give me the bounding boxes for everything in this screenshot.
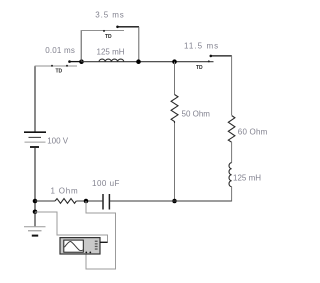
switch S2 lead (gray body line) (81, 30, 124, 32)
wire: bottom main left (35, 200, 55, 202)
resistor R2 60 Ohm zigzag (228, 116, 235, 143)
node D junction dot (middle bottom) (172, 199, 177, 204)
wire: middle branch vertical lower (174, 123, 176, 201)
svg-text:50 Ohm: 50 Ohm (182, 110, 211, 119)
svg-text:TD: TD (56, 69, 63, 75)
inductor L2 coil (229, 163, 232, 187)
ground bar 1 (24, 226, 46, 228)
inductor L1 coil (99, 59, 124, 62)
switch S2 blade pivot dot (116, 26, 119, 29)
oscilloscope XSC1 right terminal stub (100, 241, 108, 243)
svg-text:11.5 ms: 11.5 ms (184, 42, 219, 51)
ground bar 3 (32, 235, 38, 237)
switch S1 contact dot left (51, 65, 53, 67)
switch S2 blade (open, 3.5 ms) (118, 26, 140, 28)
wire: scope B probe loop (86, 201, 116, 269)
wire: resistor to capacitor (76, 200, 102, 202)
switch S1 blade (open, 0.01 ms) (69, 61, 82, 63)
wire: ground stem (34, 212, 36, 227)
battery V1 top plate (long) (24, 131, 46, 133)
node F junction dot (ground tap) (33, 210, 38, 215)
svg-text:TD: TD (196, 65, 203, 71)
switch S1 lead (gray body line) (35, 65, 77, 67)
capacitor C1 left plate (102, 194, 104, 210)
capacitor C1 right plate (108, 194, 110, 210)
battery V1 bottom plate (short) (30, 146, 39, 148)
svg-text:0.01 ms: 0.01 ms (45, 46, 75, 55)
svg-text:125 mH: 125 mH (233, 174, 261, 183)
wire: ground net to scope G terminal (35, 212, 108, 242)
svg-text:100 uF: 100 uF (92, 179, 120, 188)
switch S1 blade pivot dot (68, 60, 71, 63)
wire: top branch right vertical (138, 27, 140, 62)
wire: middle branch vertical upper (174, 62, 176, 95)
svg-text:60 Ohm: 60 Ohm (238, 128, 268, 137)
node G junction dot (scope B tap) (84, 199, 89, 204)
resistor R1 50 Ohm zigzag (171, 95, 178, 124)
svg-text:TD: TD (105, 34, 112, 40)
switch S3 blade (open, 11.5 ms) (211, 55, 232, 57)
switch S3 blade pivot dot (210, 55, 213, 58)
oscilloscope XSC1 body (60, 238, 100, 254)
switch S3 contact dot (208, 60, 210, 62)
switch S1 contact dot right (66, 65, 68, 67)
wire: right branch vertical middle (231, 142, 233, 163)
battery V1 third plate (long gray) (25, 141, 46, 143)
battery V1 second plate (short) (29, 136, 42, 138)
svg-text:100 V: 100 V (47, 137, 69, 146)
wire: right branch vertical upper (231, 56, 233, 115)
svg-text:125 mH: 125 mH (97, 48, 125, 57)
node B junction dot (136, 59, 141, 64)
oscilloscope XSC1 screen (64, 240, 84, 252)
node A junction dot (79, 59, 84, 64)
svg-text:1 Ohm: 1 Ohm (51, 186, 79, 195)
node C junction dot (172, 59, 177, 64)
wire: battery bottom vertical (34, 148, 36, 212)
wire: top branch left vertical (80, 31, 82, 62)
svg-text:3.5 ms: 3.5 ms (95, 11, 124, 20)
node E junction dot (battery/bottom wire) (33, 199, 38, 204)
ground bar 2 (28, 230, 42, 232)
wire: capacitor to right (110, 200, 232, 202)
wire: right branch vertical lower + bottom corner (175, 187, 232, 201)
resistor R3 1 Ohm zigzag (55, 199, 76, 204)
switch S2 contact dot left (103, 30, 105, 32)
oscilloscope XSC1 bottom terminal dots (85, 252, 87, 254)
oscilloscope XSC1 panel markings (95, 241, 98, 242)
oscilloscope XSC1 sine trace (64, 241, 83, 250)
wire: battery top vertical (34, 66, 36, 132)
wire: main top horizontal (82, 61, 214, 63)
